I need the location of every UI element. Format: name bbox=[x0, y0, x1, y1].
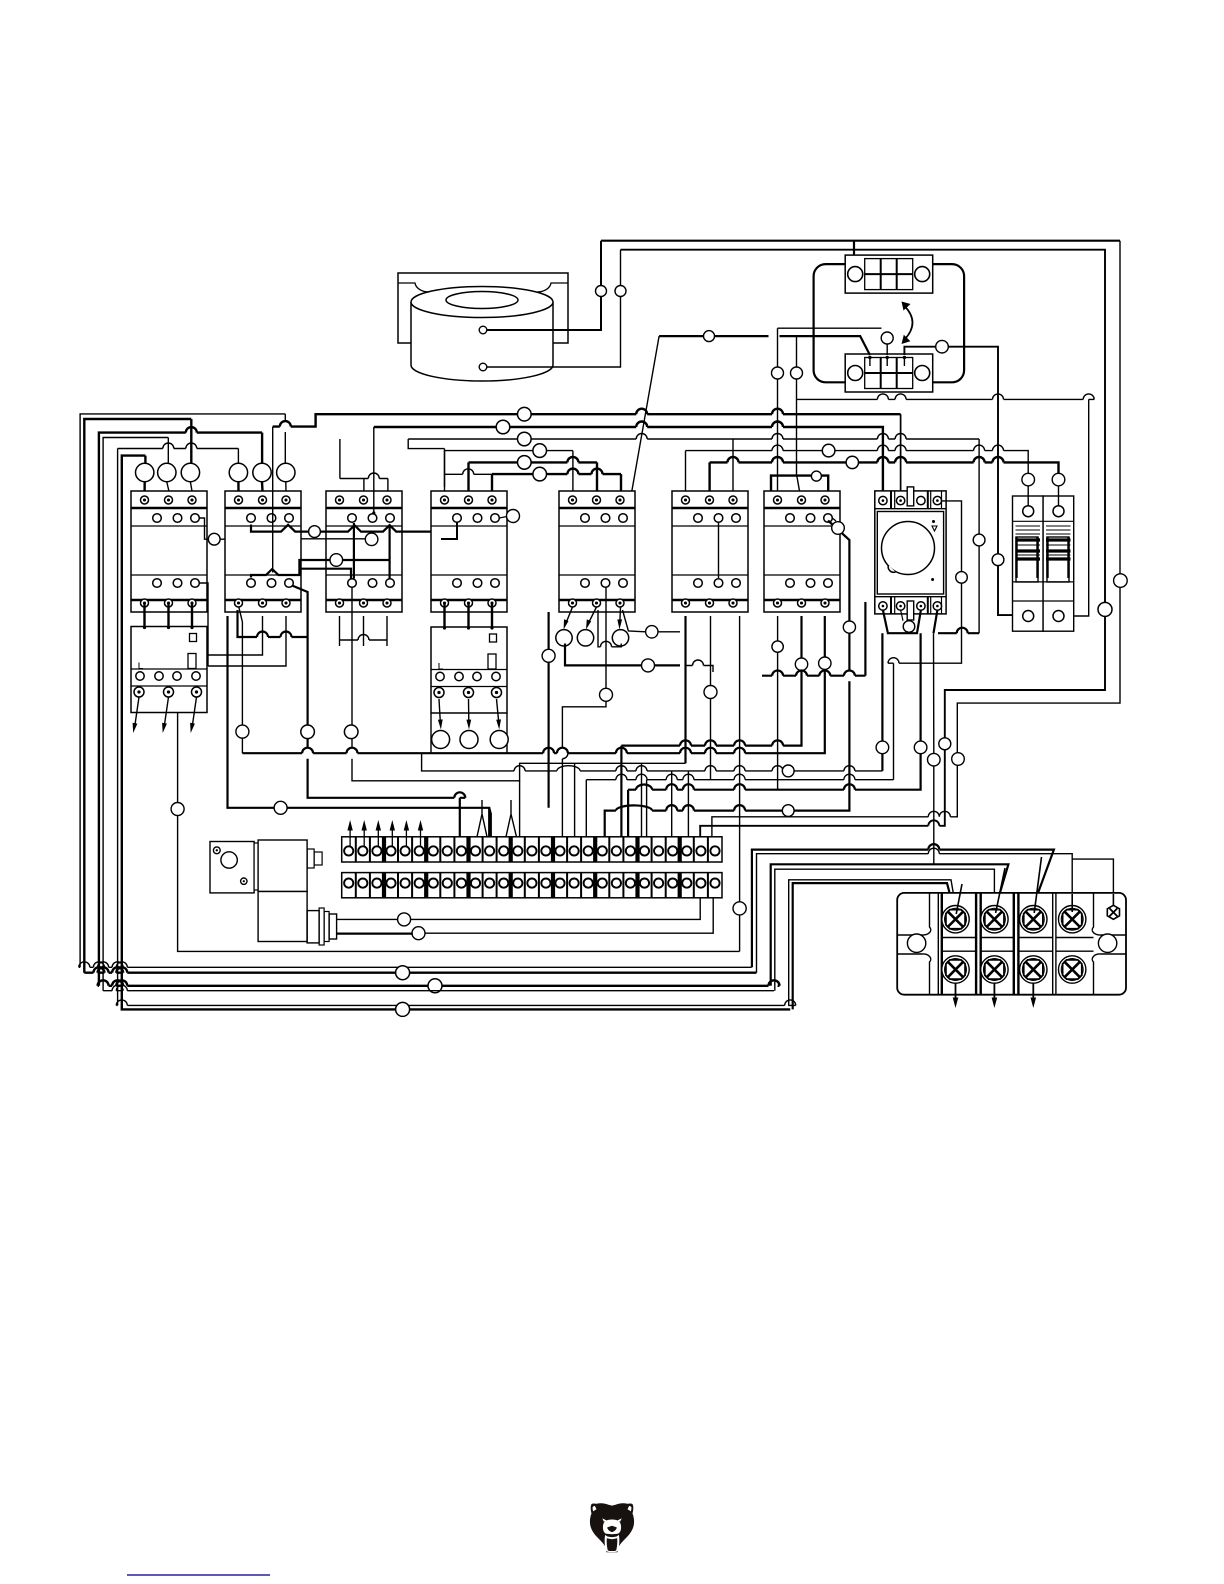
contactor KM1 bbox=[131, 491, 207, 612]
c5 motor circle1 heavy branch bbox=[565, 644, 680, 666]
c6 t3 chain down with balloon bbox=[739, 616, 741, 951]
strip entry arrows bbox=[347, 820, 423, 846]
fuse feed balloons bbox=[1022, 473, 1035, 486]
voltage selector frame bbox=[814, 264, 965, 382]
vertical feed 2 to contactor7 bbox=[797, 336, 800, 491]
terminal strip X1 bottom row bbox=[342, 873, 722, 898]
solenoid wire lower bbox=[337, 933, 414, 935]
top bus outer bbox=[601, 240, 1120, 242]
node balloon on T1 wire 1 bbox=[596, 286, 607, 297]
wire passing through KM2 bbox=[272, 491, 274, 573]
wire T1 term1 to node 1 bbox=[487, 241, 601, 330]
c2 drop balloon bbox=[292, 586, 465, 840]
terminal block screw TB screw B2 bbox=[981, 956, 1008, 983]
KM5 motor lead arrows bbox=[564, 607, 623, 630]
heavy vertical left of c5 bbox=[547, 612, 549, 808]
balloon on cascade4 east bbox=[822, 444, 835, 457]
diagonal from selector feed to contactor 5 bbox=[625, 336, 659, 530]
balloon selector stem3 bbox=[936, 340, 949, 353]
c3 top jumper bbox=[340, 439, 388, 491]
balloon on 1009 bus bbox=[396, 1002, 410, 1016]
wire selector stem2 bbox=[778, 328, 888, 355]
terminal block screw TB screw B1 bbox=[942, 956, 969, 983]
balloon on c7 feed 1 bbox=[772, 367, 784, 379]
terminal block screw TB screw A4 bbox=[1059, 906, 1086, 933]
balloon between c1 and c2 bbox=[200, 518, 225, 539]
Grizzly bear logo bbox=[590, 1503, 634, 1552]
bus B10 heavy bbox=[605, 521, 850, 840]
heavy feed path A to rotary switch term2 bbox=[273, 409, 901, 427]
strip drop from jog bbox=[519, 781, 521, 839]
c6 t2 bottom stem bbox=[710, 616, 712, 780]
wire heavy into selector stem1 bbox=[659, 336, 870, 355]
wire into KM3 aux bbox=[373, 491, 375, 513]
pass-through vertical x272 into contactor2 bbox=[272, 427, 274, 491]
power feed lines from nest verticals bbox=[752, 844, 1054, 967]
bus B6 bbox=[586, 774, 893, 839]
balloon on 985 bus bbox=[428, 979, 442, 993]
x961 term4 wire bbox=[888, 501, 962, 780]
c5 term3 branch to balloon bbox=[623, 610, 681, 632]
top bus inner bbox=[621, 250, 1106, 839]
TB bottom arrows bbox=[953, 984, 1036, 1009]
timer bottom bus bbox=[883, 610, 979, 633]
bus B7 heavy bbox=[628, 633, 921, 839]
balloon right bus bbox=[1098, 602, 1112, 616]
T1 terminal 2 bbox=[479, 363, 487, 371]
contactor KM6 bbox=[672, 491, 748, 612]
selector lower terminal block bbox=[845, 354, 933, 392]
balloon on right vertical x1120 bbox=[1114, 574, 1128, 588]
c6 t3 stem bbox=[732, 439, 734, 491]
selector upper terminal block bbox=[845, 255, 933, 293]
balloon on B3b bbox=[782, 765, 794, 777]
c4 top jumper bbox=[445, 449, 493, 487]
bus B1 bbox=[621, 616, 801, 839]
balloon on c7 feed 2 bbox=[791, 367, 803, 379]
fuse holder block bbox=[1013, 496, 1074, 631]
left bus L6 heavy bbox=[122, 456, 790, 1010]
c7 t2 balloon bbox=[795, 658, 807, 670]
c5 term2 hook bbox=[598, 610, 621, 647]
c2 aux2 zigzag to c3 bbox=[251, 524, 390, 578]
KM5 motor lead circles bbox=[556, 630, 572, 646]
OL4 stems bbox=[445, 603, 493, 627]
rotation arrow bbox=[905, 306, 913, 340]
c4 aux1 stub bbox=[441, 523, 457, 540]
balloon right of c4 bbox=[499, 517, 507, 519]
left bus L4 bbox=[103, 438, 168, 991]
balloon x957 bbox=[952, 753, 965, 766]
c3 aux1 to aux2 jumper bbox=[301, 523, 354, 579]
c7 top jumper with balloon bbox=[771, 476, 828, 491]
contactor KM2 bbox=[225, 491, 301, 612]
balloon under timer bbox=[903, 621, 915, 633]
terminal block screw TB screw A1 bbox=[942, 906, 969, 933]
strip bottom drop wires bbox=[337, 898, 701, 919]
c3 bottom stems bbox=[340, 616, 388, 646]
left bus L2 heavy bbox=[84, 419, 191, 973]
strip top drops remaining bbox=[489, 808, 491, 839]
solenoid valve assembly bbox=[210, 840, 337, 945]
c1 aux wire down right bbox=[200, 583, 208, 666]
balloon on OL1 aux wire bbox=[171, 803, 184, 816]
wire T1 term2 to node 2 bbox=[487, 250, 621, 367]
vertical feed selector stem wire to contactor7 bbox=[777, 328, 779, 491]
overload relay OL4 bbox=[431, 626, 507, 713]
stems balloons to contactor tops bbox=[143, 482, 145, 491]
selector feed from top bus bbox=[853, 241, 855, 273]
bus B9 heavy bbox=[228, 616, 490, 839]
OL4 enclosure extension bbox=[431, 713, 507, 753]
c3 drop balloon bbox=[352, 588, 686, 781]
c7 t3 balloon bbox=[819, 657, 831, 669]
x865 heavy corner wire bbox=[762, 602, 865, 676]
balloon on cascade5 east bbox=[846, 456, 858, 468]
current transformer T1 bracket bbox=[398, 273, 568, 343]
bus B4 from OL4 stub bbox=[422, 753, 883, 771]
contactor KM3 bbox=[326, 491, 402, 612]
bus B2 bbox=[242, 616, 824, 753]
terminal block screw TB screw A3 bbox=[1020, 906, 1047, 933]
contactor KM4 bbox=[431, 491, 507, 612]
left bus L1 bbox=[80, 414, 285, 967]
node balloon on T1 wire 2 bbox=[615, 286, 626, 297]
OL4 output arrows bbox=[438, 699, 501, 730]
c7 t1 stem bbox=[777, 616, 779, 790]
OL1 aux wire down bbox=[178, 713, 740, 952]
footer rule (link underline) bbox=[127, 1574, 270, 1576]
balloon on right heavy vertical bbox=[992, 554, 1004, 566]
left bus L3 heavy bbox=[99, 427, 262, 986]
OL4 motor lead circles bbox=[432, 731, 450, 749]
balloon on switch feed bus bbox=[518, 407, 532, 421]
hex ground screw bbox=[1107, 905, 1119, 919]
terminal block screw TB screw B3 bbox=[1020, 956, 1047, 983]
selector lower stems bbox=[869, 358, 871, 366]
terminal block screw TB screw B4 bbox=[1059, 956, 1086, 983]
wire from c7 feed to fuse 2 via right side bbox=[797, 394, 1095, 616]
bus cascade 4 west (to c5 t1) bbox=[445, 451, 573, 491]
c2 aux1 heavy chain to balloon in c3 bbox=[251, 525, 431, 532]
x882 chain balloon bbox=[881, 633, 883, 771]
bus cascade 4 east (c6 t1 to fuse 1) bbox=[686, 445, 1029, 491]
heavy feed path B to rotary switch term1 bbox=[374, 422, 883, 491]
balloon right of c3 aux bbox=[301, 538, 366, 540]
current transformer T1 body bbox=[411, 302, 553, 381]
balloon on 979 vertical bbox=[973, 534, 985, 546]
OL1 stems bbox=[145, 603, 193, 627]
c6 internal aux jumper bbox=[718, 523, 720, 579]
wire selector stem3 right bbox=[904, 347, 1021, 615]
rotary timer switch body bbox=[875, 487, 946, 620]
left bus L5 bbox=[118, 443, 239, 1005]
balloon x945 bbox=[939, 738, 951, 750]
bus cascade 5 east heavy (c6 t2 to fuse 2) bbox=[710, 457, 1059, 491]
balloon on selector feed bbox=[704, 331, 715, 342]
balloon right of c7 aux bbox=[832, 518, 836, 521]
terminal block screw TB screw A2 bbox=[981, 906, 1008, 933]
terminal strip X1 top row bbox=[342, 837, 722, 862]
contactor KM5 bbox=[559, 491, 635, 612]
c6 bottom bar bbox=[686, 660, 714, 672]
balloons above contactors 1-2 bbox=[136, 463, 154, 481]
power block feed overlays bbox=[956, 857, 1113, 914]
bus cascade 6 heavy (to c5 t3) bbox=[492, 469, 621, 491]
contactor KM7 bbox=[764, 491, 840, 612]
bus cascade 5 west heavy (to c5 t2) bbox=[469, 457, 598, 491]
bus cascade 3 (439) to c4 and timer bus bbox=[408, 434, 979, 634]
T1 terminal 1 bbox=[479, 326, 487, 334]
tents above strip bbox=[477, 800, 518, 839]
c6 t1 bottom stem bbox=[684, 616, 686, 763]
x933 wire bbox=[933, 633, 935, 864]
power terminal block TB bbox=[897, 893, 1126, 995]
c2 bottom stems bbox=[238, 610, 308, 637]
balloon on bottom bus bbox=[396, 966, 410, 980]
c5 aux2 chain down to strip bbox=[562, 588, 606, 840]
overload relay OL1 bbox=[131, 626, 207, 713]
balloon selector stem2 bbox=[881, 332, 893, 344]
OL1 output arrows bbox=[133, 697, 197, 733]
